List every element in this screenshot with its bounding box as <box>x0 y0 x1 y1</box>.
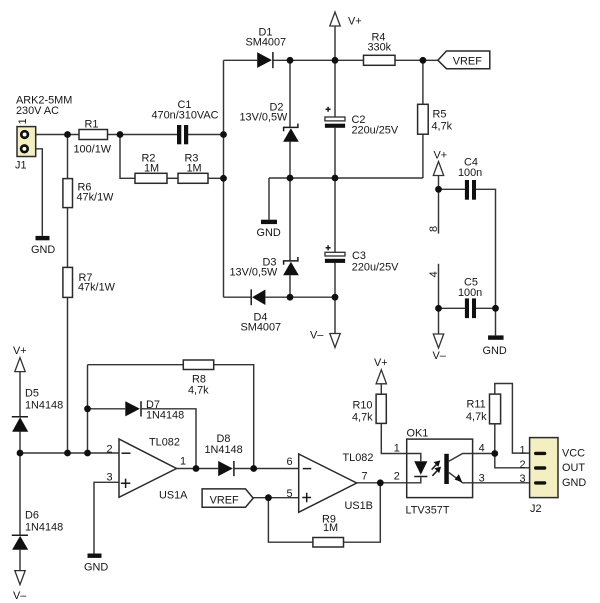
wire V- stem middle <box>334 297 336 334</box>
svg-text:3: 3 <box>107 472 113 484</box>
junction node 6 <box>332 57 339 64</box>
ground (rail) <box>257 220 281 239</box>
junction node 14 <box>492 305 499 312</box>
svg-text:TL082: TL082 <box>343 452 374 464</box>
power symbol V+ (C4) <box>433 162 443 176</box>
svg-text:1N4148: 1N4148 <box>25 522 63 534</box>
svg-text:230V AC: 230V AC <box>16 105 59 117</box>
capacitor C4 <box>465 180 476 200</box>
junction node 13 <box>435 305 442 312</box>
ground (US1A) <box>84 554 108 574</box>
svg-text:1M: 1M <box>144 162 159 174</box>
svg-text:R1: R1 <box>85 118 99 130</box>
diode D6 <box>12 535 28 550</box>
svg-text:1M: 1M <box>323 522 338 534</box>
wire ground rail leg <box>268 178 270 220</box>
svg-text:1N4148: 1N4148 <box>205 444 243 456</box>
junction node 12 <box>435 186 442 193</box>
resistor R7 <box>63 267 73 297</box>
wire US1A output to D8 <box>177 468 219 470</box>
wire R5 top lead <box>422 60 424 104</box>
svg-text:1: 1 <box>520 444 526 456</box>
wire US1A pin3 to GND <box>94 482 119 553</box>
connector J1 <box>17 127 36 157</box>
wire D4 to V- node <box>265 296 335 298</box>
power symbol V- (left rail) <box>15 571 25 585</box>
wire branch down to R2 row <box>120 135 135 179</box>
wire US1B output to OK1 pin2 <box>357 482 407 484</box>
wire C1 to AC bus <box>188 134 224 136</box>
wire input rail <box>20 452 119 454</box>
junction node 9 <box>332 175 339 182</box>
svg-text:3: 3 <box>479 472 485 484</box>
diode D4 <box>251 289 265 305</box>
junction node 20 <box>250 465 257 472</box>
wire C4 left lead <box>439 188 465 190</box>
svg-text:4: 4 <box>479 443 485 455</box>
svg-text:13V/0,5W: 13V/0,5W <box>230 267 279 279</box>
wire node to D7 <box>88 408 126 410</box>
wire C4 right to GND bus <box>476 189 496 335</box>
svg-text:D6: D6 <box>25 510 39 522</box>
svg-text:C3: C3 <box>352 250 366 262</box>
junction node 1 <box>64 131 71 138</box>
svg-text:8: 8 <box>428 226 440 232</box>
svg-text:GND: GND <box>562 477 586 489</box>
junction node 15 <box>17 450 24 457</box>
svg-text:D5: D5 <box>25 388 39 400</box>
wire R5 bottom lead <box>422 134 424 178</box>
diode D7 <box>125 401 141 416</box>
wire R4 to VREF flag <box>395 59 438 61</box>
wire D3 top lead <box>289 178 291 261</box>
svg-text:1M: 1M <box>187 162 202 174</box>
junction node 23 <box>491 450 498 457</box>
wire AC bus vertical <box>223 60 225 297</box>
junction node 10 <box>287 294 294 301</box>
svg-text:6: 6 <box>287 456 293 468</box>
junction node 5 <box>287 57 294 64</box>
svg-text:V–: V– <box>433 350 447 362</box>
diode D1 <box>257 52 273 68</box>
wire R6 top lead <box>67 135 69 179</box>
wire OK1 pin4 to node <box>473 453 495 455</box>
wire D1 to R4 <box>273 59 364 61</box>
wire D2 to ground rail <box>289 142 291 178</box>
resistor R4 <box>364 55 396 65</box>
wire V+ to R10 <box>380 383 382 394</box>
svg-text:1: 1 <box>17 118 29 124</box>
wire VREF flag to US1B pin5 <box>253 497 299 499</box>
wire C2 bottom lead <box>334 128 336 178</box>
svg-text:GND: GND <box>84 562 108 574</box>
zener diode D3 <box>283 257 299 275</box>
wire D3 bottom lead <box>289 275 291 297</box>
junction node 21 <box>265 494 272 501</box>
wire R7 to input rail <box>67 297 69 453</box>
svg-text:4,7k: 4,7k <box>432 121 453 133</box>
svg-text:47k/1W: 47k/1W <box>78 282 116 294</box>
junction node 4 <box>220 175 227 182</box>
svg-text:V+: V+ <box>348 16 362 28</box>
resistor R11 <box>490 394 501 424</box>
junction node 17 <box>84 450 91 457</box>
wire C5 right lead <box>476 307 496 309</box>
svg-text:VREF: VREF <box>453 56 482 68</box>
junction node 19 <box>193 465 200 472</box>
junction node 8 <box>287 175 294 182</box>
svg-text:OK1: OK1 <box>407 427 429 439</box>
svg-text:1N4148: 1N4148 <box>25 400 63 412</box>
wire J1 pin1 to R1 <box>28 134 79 136</box>
wire R2 to R3 <box>167 177 178 179</box>
resistor R1 <box>79 130 108 140</box>
wire C3 top lead <box>334 178 336 252</box>
wire node down to J2 pin2 <box>495 424 530 468</box>
svg-text:330k: 330k <box>368 41 392 53</box>
svg-text:V+: V+ <box>434 150 448 162</box>
op-amp US1A <box>119 439 177 497</box>
wire R11 over to J2 pin1 <box>495 384 530 454</box>
op-amp US1B <box>299 454 357 512</box>
wire top rail to D1 <box>224 59 258 61</box>
svg-text:GND: GND <box>483 345 507 357</box>
wire C3 bottom lead <box>334 263 336 297</box>
wire V+ node to D2 <box>289 60 291 127</box>
svg-text:5: 5 <box>287 488 293 500</box>
svg-text:GND: GND <box>257 227 281 239</box>
wire C2 top lead <box>334 60 336 117</box>
resistor R3 <box>178 173 208 183</box>
svg-text:VCC: VCC <box>562 447 585 459</box>
resistor R10 <box>376 394 386 423</box>
junction node 2 <box>117 131 124 138</box>
svg-text:100/1W: 100/1W <box>74 143 112 155</box>
wire V- stem below C5 <box>438 308 440 334</box>
svg-text:47k/1W: 47k/1W <box>77 192 115 204</box>
svg-text:2: 2 <box>107 443 113 455</box>
junction node 11 <box>332 294 339 301</box>
svg-text:VREF: VREF <box>210 494 239 506</box>
wire rail to D6 <box>19 453 21 535</box>
net flag VREF (US1B pin5) <box>202 489 253 507</box>
svg-text:R10: R10 <box>353 399 373 411</box>
svg-text:100n: 100n <box>458 167 482 179</box>
power symbol V+ (left rail) <box>15 358 25 372</box>
svg-text:1: 1 <box>394 442 400 454</box>
svg-text:R8: R8 <box>192 373 206 385</box>
wire bottom rail to D4 <box>224 296 252 298</box>
capacitor C5 <box>465 298 476 318</box>
wire D8 to US1B pin6 <box>234 468 299 470</box>
svg-text:SM4007: SM4007 <box>241 322 282 334</box>
svg-text:2: 2 <box>394 470 400 482</box>
svg-text:3: 3 <box>520 473 526 485</box>
svg-text:V–: V– <box>310 329 324 341</box>
ground (J1) <box>31 236 55 256</box>
wire D7 to output node <box>142 409 196 469</box>
wire R10 to OK1 pin1 <box>381 423 406 453</box>
wire feedback top to R8 <box>88 364 184 366</box>
svg-text:TL082: TL082 <box>149 436 180 448</box>
wire V+ rail stem top <box>334 26 336 61</box>
diode D5 <box>12 417 28 432</box>
resistor R8 <box>183 360 213 370</box>
resistor R9 <box>313 538 344 548</box>
capacitor C3 (polarized) <box>325 245 345 263</box>
svg-text:220u/25V: 220u/25V <box>352 262 399 274</box>
zener diode D2 <box>283 124 299 142</box>
wire J1 pin2 to GND <box>28 149 43 236</box>
svg-text:220u/25V: 220u/25V <box>352 125 399 137</box>
power symbol V- (C5) <box>433 334 443 348</box>
svg-text:D8: D8 <box>217 433 231 445</box>
pin 8 stub <box>438 189 440 233</box>
wire R3 to AC bus <box>208 177 224 179</box>
wire V+ stem to C4 node <box>438 175 440 189</box>
svg-text:US1B: US1B <box>345 500 373 512</box>
svg-text:V+: V+ <box>374 357 388 369</box>
wire D6 to V- arrow <box>19 550 21 571</box>
svg-text:4,7k: 4,7k <box>188 385 209 397</box>
junction node 3 <box>220 131 227 138</box>
svg-text:2: 2 <box>520 459 526 471</box>
wire D5 to input rail <box>19 432 21 453</box>
capacitor C2 (polarized) <box>325 107 345 128</box>
power symbol V- (middle rail) <box>330 334 340 348</box>
resistor R5 <box>418 104 429 134</box>
capacitor C1 <box>177 125 188 144</box>
connector J2 <box>530 438 558 498</box>
wire R9 left leg <box>268 498 313 543</box>
svg-text:4,7k: 4,7k <box>466 411 487 423</box>
pin 4 stub <box>438 264 440 309</box>
svg-text:470n/310VAC: 470n/310VAC <box>152 110 219 122</box>
optocoupler OK1 <box>407 439 473 498</box>
wire R6 to R7 <box>67 208 69 268</box>
power symbol V+ (top rail) <box>330 12 340 26</box>
wire V+ left stem <box>19 371 21 416</box>
svg-text:GND: GND <box>31 244 55 256</box>
wire feedback vertical <box>87 365 89 453</box>
svg-text:SM4007: SM4007 <box>246 37 287 49</box>
svg-text:13V/0,5W: 13V/0,5W <box>240 112 289 124</box>
wire R9 right leg <box>344 483 381 542</box>
wire R1 to C1 <box>108 134 178 136</box>
wire ground rail <box>269 177 423 179</box>
resistor R6 <box>63 179 73 208</box>
power symbol V+ (R10) <box>376 370 386 384</box>
svg-text:J1: J1 <box>15 160 27 172</box>
svg-text:4,7k: 4,7k <box>352 411 373 423</box>
svg-text:R11: R11 <box>467 399 486 411</box>
svg-text:1: 1 <box>180 456 186 468</box>
svg-text:LTV357T: LTV357T <box>406 505 450 517</box>
junction node 7 <box>420 57 427 64</box>
svg-text:R5: R5 <box>433 109 447 121</box>
svg-text:US1A: US1A <box>159 489 188 501</box>
svg-text:1N4148: 1N4148 <box>146 410 184 422</box>
junction node 16 <box>64 450 71 457</box>
svg-text:100n: 100n <box>458 287 482 299</box>
resistor R2 <box>135 173 167 183</box>
svg-text:V–: V– <box>13 590 27 602</box>
wire OK1 pin3 to J2 pin3 <box>473 482 530 484</box>
svg-text:4: 4 <box>428 271 440 277</box>
svg-text:7: 7 <box>362 471 368 483</box>
diode D8 <box>218 461 234 476</box>
svg-text:J2: J2 <box>530 503 542 515</box>
svg-text:V+: V+ <box>13 345 27 357</box>
junction node 22 <box>377 479 384 486</box>
wire R8 to output node <box>214 365 254 469</box>
wire C5 left lead <box>439 307 465 309</box>
ground (C4 C5) <box>483 335 507 357</box>
net flag VREF (top) <box>438 51 490 69</box>
junction node 18 <box>84 405 91 412</box>
svg-text:OUT: OUT <box>562 462 585 474</box>
